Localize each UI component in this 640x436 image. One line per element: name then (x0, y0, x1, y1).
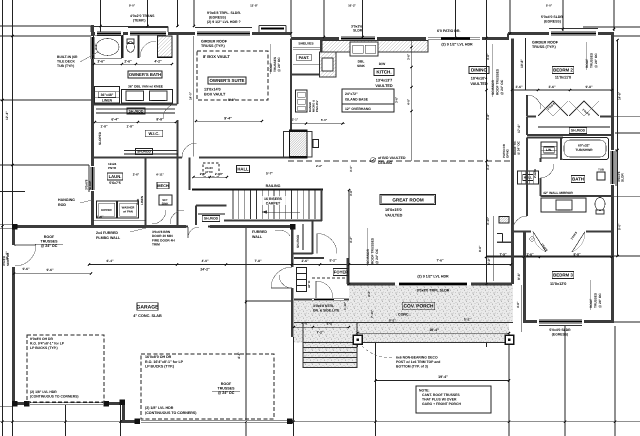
svg-text:CANT. ROOF TRUSSES: CANT. ROOF TRUSSES (422, 393, 460, 397)
svg-text:(EGRESS): (EGRESS) (544, 20, 561, 24)
door: suite from WIC (163, 104, 178, 118)
garage OH door 16'0 opening (140, 420, 288, 423)
svg-text:5'0x4'0 SLDR: 5'0x4'0 SLDR (541, 15, 563, 19)
svg-text:GIRDER ROOF: GIRDER ROOF (201, 40, 228, 44)
label: OWNERS SUITE (208, 77, 246, 84)
svg-text:10'-8": 10'-8" (520, 59, 524, 68)
svg-text:2'-6": 2'-6" (301, 259, 309, 263)
window: laundry west 3'0x6'8 slide (91, 166, 94, 191)
garage west wall (12, 227, 15, 404)
dimension line: left horizontal y=100 (0, 99, 91, 101)
wall: foyer east (346, 258, 348, 284)
svg-text:8'-0": 8'-0" (228, 98, 236, 102)
svg-text:2'-1": 2'-1" (292, 118, 299, 122)
svg-text:9'-0": 9'-0" (129, 4, 136, 8)
owner bath: toilet (127, 42, 135, 52)
svg-text:NOTE:: NOTE: (419, 389, 430, 393)
window: great room 9'0x8'0 trpl sldr (395, 282, 471, 285)
svg-text:PNTR: PNTR (108, 166, 117, 170)
svg-text:TRUSS (TYP.): TRUSS (TYP.) (201, 44, 225, 48)
svg-text:16'-2": 16'-2" (348, 4, 356, 8)
svg-text:4'-6": 4'-6" (516, 301, 520, 308)
svg-text:WALL: WALL (252, 235, 263, 239)
label: FOYER (333, 269, 349, 276)
svg-text:CONC.: CONC. (398, 313, 410, 317)
garage south jog wall (122, 402, 125, 423)
svg-text:(2) 1/8" LVL HDR: (2) 1/8" LVL HDR (145, 406, 174, 410)
WIC closet shelf and rod (96, 108, 175, 110)
svg-text:5'-7": 5'-7" (266, 172, 273, 176)
svg-text:THAT PLUS W/ OVER: THAT PLUS W/ OVER (422, 398, 457, 402)
svg-text:SH./ROD: SH./ROD (571, 129, 586, 133)
clerestory window bump 259-286 (259, 25, 286, 27)
svg-text:TUB: TUB (598, 168, 604, 172)
dim 18-4 between posts (358, 332, 510, 334)
svg-text:@ 24" OC: @ 24" OC (500, 79, 504, 95)
owner bath: shower mud set (158, 36, 173, 58)
dimension line: vertical x=525 bedroom2 (525, 38, 527, 90)
dimension line: right horizontal y=36 (612, 35, 640, 37)
wall: chase south (497, 241, 512, 243)
dimension line: horizontal y=90 bedroom2 (512, 89, 614, 91)
svg-text:SLDR: SLDR (621, 173, 625, 182)
svg-text:17'-6": 17'-6" (517, 124, 521, 133)
dimension line: right vertical x=615 bottom (614, 326, 616, 436)
svg-text:W.I.C.: W.I.C. (149, 131, 160, 136)
garage south wall left (12, 402, 125, 405)
foyer dashed ceiling (312, 277, 345, 279)
svg-text:BOX VAULT: BOX VAULT (204, 92, 226, 96)
svg-text:w/ PAN: w/ PAN (122, 210, 133, 214)
dimension line: vertical x=375 porch (375, 285, 377, 436)
wall: suite west (177, 35, 179, 104)
dimension line: vertical x=349 great room (348, 190, 350, 284)
svg-text:7'-9": 7'-9" (499, 253, 507, 257)
door: suite entry (182, 156, 199, 159)
dimension line: right vertical x=614 (613, 0, 615, 31)
pantry shelves (293, 47, 320, 49)
svg-text:2'-10": 2'-10" (215, 172, 224, 176)
svg-text:6x6 NON-BEARING DECO: 6x6 NON-BEARING DECO (396, 356, 438, 360)
dimension line: left vertical A (2, 0, 4, 436)
svg-text:3'-10": 3'-10" (486, 216, 490, 225)
exterior wall: bedroom3 west (523, 231, 526, 322)
svg-text:3'-8": 3'-8" (486, 113, 490, 120)
garage east door opening to mud hall (291, 267, 294, 288)
svg-text:SH./ROD: SH./ROD (296, 234, 300, 248)
svg-text:BEDRM 3: BEDRM 3 (553, 273, 573, 278)
svg-text:PLMBG WALL: PLMBG WALL (96, 236, 121, 240)
svg-text:BATH: BATH (572, 177, 584, 182)
svg-text:R.O. 16'4"x8'-1" for LP: R.O. 16'4"x8'-1" for LP (145, 360, 184, 364)
dimension line: left vertical B (12, 0, 14, 436)
hall south wall / bath north (527, 137, 563, 139)
svg-text:6'-4": 6'-4" (111, 118, 119, 122)
svg-text:5'-2": 5'-2" (329, 259, 337, 263)
bifold doors bedroom2 closet (538, 101, 553, 116)
svg-text:3'-4": 3'-4" (94, 43, 98, 50)
dimension line: vertical x=486 center (486, 0, 488, 347)
svg-text:12'-4": 12'-4" (5, 111, 9, 120)
svg-text:3'-6": 3'-6" (548, 85, 556, 89)
svg-text:PAN 45V: PAN 45V (315, 100, 319, 112)
dimension line: top vertical x=510 (509, 0, 511, 32)
window: owner suite 9'0 trpl sldr (195, 32, 252, 35)
svg-text:2'-0": 2'-0" (200, 172, 207, 176)
dimension line: top vertical x=324 (323, 0, 325, 37)
svg-text:DINING: DINING (471, 68, 488, 73)
kitchen counter north (322, 41, 428, 53)
dimension line: horizontal y=301 garage east (245, 300, 291, 302)
dimension line: vertical x=193 owner suite (193, 36, 195, 157)
label: PANT (297, 54, 311, 60)
dimension line: vertical x=357 post (357, 332, 359, 347)
window: bath east 3'0x3'6 sldr (611, 150, 614, 185)
svg-text:VAULTED: VAULTED (470, 82, 488, 86)
door: 6'0 patio door dining (426, 37, 482, 40)
garage south wall right (121, 420, 294, 423)
svg-text:DRYER: DRYER (101, 208, 112, 212)
svg-text:OWNER'S BATH: OWNER'S BATH (129, 72, 161, 77)
wall jog dining-bedroom2 (507, 34, 509, 41)
svg-text:3'-4": 3'-4" (486, 163, 490, 170)
owner bath: vanity counter (122, 90, 173, 104)
svg-text:4'0x2'0 TRANS: 4'0x2'0 TRANS (130, 14, 155, 18)
svg-text:9'-0": 9'-0" (618, 223, 622, 230)
svg-text:9'-6": 9'-6" (517, 272, 521, 280)
svg-text:@ 24" OC: @ 24" OC (218, 391, 235, 395)
svg-text:@ 24" OC: @ 24" OC (594, 53, 598, 68)
exterior wall: kitchen-dining north (291, 37, 508, 40)
svg-text:24"x72": 24"x72" (345, 92, 358, 96)
label: GREAT ROOM (380, 195, 436, 205)
dimension line: bottom vertical x=565 (564, 326, 566, 436)
wall: foyer north (294, 257, 324, 259)
label: BEDRM 3 (552, 272, 574, 279)
svg-text:GREAT ROOM: GREAT ROOM (392, 198, 423, 203)
note box cant roof trusses (416, 386, 491, 413)
svg-text:ISLAND BASE: ISLAND BASE (345, 98, 369, 102)
mud lockers column (297, 268, 307, 274)
svg-text:7'-6": 7'-6" (436, 259, 444, 263)
svg-text:4'-0": 4'-0" (201, 259, 209, 263)
owner bath: shower glass (158, 56, 173, 58)
porch slab edge line (294, 322, 513, 324)
exterior wall: great room south porch wall (347, 283, 512, 286)
svg-text:ROOF: ROOF (221, 382, 232, 386)
wall: suite east / pantry west (290, 39, 292, 158)
porch post west (353, 335, 362, 344)
deco post dashed leader (362, 346, 392, 358)
svg-text:GIRDER ROOF: GIRDER ROOF (532, 41, 559, 45)
svg-text:11'0x11'0: 11'0x11'0 (555, 76, 571, 80)
svg-text:PANT.: PANT. (299, 56, 310, 60)
porch step band stipple (294, 323, 509, 343)
window: owner bath west (91, 36, 94, 59)
foyer door arc (315, 281, 317, 298)
svg-text:GARG + FRONT PORCH: GARG + FRONT PORCH (422, 402, 461, 406)
door: closet east of stairs (316, 234, 318, 254)
svg-text:(EGRESS): (EGRESS) (552, 333, 568, 337)
svg-text:CARPET: CARPET (266, 201, 281, 205)
dimension line: bottom vertical x=120 (120, 402, 122, 436)
svg-text:FURRED: FURRED (252, 230, 267, 234)
door arc mud hall (279, 275, 292, 288)
label: shrod mud closet (202, 216, 219, 222)
dimension line: top vertical x=194 (193, 0, 195, 27)
svg-text:9'0x8'0 TRPL SLDR: 9'0x8'0 TRPL SLDR (417, 289, 450, 293)
svg-text:42" WALL MIRROR: 42" WALL MIRROR (543, 191, 573, 195)
dimension line: kitchen interior x=411 (411, 40, 413, 161)
svg-text:6'0 PATIO DR.: 6'0 PATIO DR. (437, 29, 461, 33)
svg-text:(CONTINUOUS TO CORNERS): (CONTINUOUS TO CORNERS) (145, 411, 197, 415)
svg-text:19'-4": 19'-4" (438, 375, 448, 379)
mech room walls (177, 158, 179, 227)
water heater chase box (499, 217, 509, 224)
svg-text:8'-8": 8'-8" (573, 253, 581, 257)
garage OH door 9'0 opening (29, 402, 104, 405)
svg-text:(2) 9 1/2" LVL HDR ?: (2) 9 1/2" LVL HDR ? (207, 20, 241, 24)
svg-text:13'0x14'0: 13'0x14'0 (204, 88, 221, 92)
label: BATH (571, 176, 585, 183)
svg-text:2x4 FURRED: 2x4 FURRED (96, 231, 118, 235)
svg-text:TRUSSES: TRUSSES (594, 293, 598, 308)
svg-text:3'-6": 3'-6" (407, 53, 411, 60)
dimension line: top vertical x=147 (147, 0, 149, 27)
svg-text:(TEMP.): (TEMP.) (133, 19, 146, 23)
linen cabinet 36x48 (95, 87, 120, 104)
kitchen island (342, 89, 394, 104)
svg-text:(CONTINUOUS TO CORNERS): (CONTINUOUS TO CORNERS) (30, 395, 79, 399)
svg-text:KITCH.: KITCH. (376, 70, 391, 75)
bath toilet (595, 198, 605, 211)
door knob circle bedroom3 (530, 237, 534, 241)
svg-text:14'-0": 14'-0" (189, 91, 193, 100)
owner bath: tub 6'0 tile deck (94, 36, 122, 59)
svg-text:7'-2": 7'-2" (316, 331, 324, 335)
svg-text:SINK: SINK (357, 64, 365, 68)
stair treads (232, 191, 234, 220)
window: bedroom3 south 5'0x4'0 (537, 320, 584, 323)
exterior wall: west wall owner block (91, 25, 94, 226)
dashed header box: 16'0 OH door (141, 354, 274, 419)
svg-text:9'0x8'0 OH DR: 9'0x8'0 OH DR (30, 337, 53, 341)
svg-text:POST w/ 1x6 TRIM TOP and: POST w/ 1x6 TRIM TOP and (396, 360, 440, 364)
svg-text:@ 24" OC: @ 24" OC (517, 140, 521, 155)
svg-text:LAUN.: LAUN. (109, 174, 122, 179)
svg-text:3'-0": 3'-0" (349, 165, 353, 172)
dimension line: right horizontal y=133 (615, 132, 640, 134)
fireplace TV marker (313, 140, 319, 148)
dimension line: left horizontal y=36 (0, 35, 92, 37)
dimension line: top vertical x=177 (177, 0, 179, 27)
svg-text:SH./ROD: SH./ROD (204, 217, 219, 221)
svg-text:ROOF: ROOF (44, 235, 55, 239)
svg-text:ROOF: ROOF (585, 59, 589, 68)
label: HALL center (236, 166, 249, 173)
garage service door opening west (12, 245, 15, 267)
svg-text:SLOPED: SLOPED (98, 131, 102, 145)
dashed vaulted ceiling line (288, 160, 512, 162)
svg-text:8'-6": 8'-6" (478, 245, 482, 252)
svg-text:(EGRESS): (EGRESS) (209, 16, 226, 20)
window: bedroom2 5'0x4'0 sldr egress (549, 32, 598, 35)
wall: closet west (526, 117, 528, 136)
svg-text:TRUSSES: TRUSSES (218, 387, 236, 391)
railing (192, 188, 323, 190)
dimension line: vertical x=246 garage (245, 228, 247, 436)
extra ticks top (99, 25, 101, 27)
svg-text:9'-8": 9'-8" (585, 85, 593, 89)
dimension line: vertical x=617 right (617, 40, 619, 256)
entry steps (302, 323, 304, 369)
linen shelves hall2 (518, 171, 539, 184)
exterior wall: right block west (511, 39, 514, 285)
svg-text:7'-10": 7'-10" (370, 309, 374, 318)
svg-text:7'-8": 7'-8" (254, 259, 262, 263)
dimension line: left horizontal y=191 (0, 191, 25, 193)
svg-text:2'-6": 2'-6" (133, 173, 140, 177)
dimension line: right horizontal y=256 (486, 255, 640, 257)
dashed box vault owner suite (197, 51, 268, 100)
svg-text:SHELVES: SHELVES (298, 42, 314, 46)
dimension line: top vertical x=563 (562, 0, 564, 31)
stairs bottom wall (224, 220, 322, 222)
svg-text:9'-6": 9'-6" (96, 215, 104, 219)
svg-text:HALL: HALL (237, 167, 249, 172)
svg-text:D/W: D/W (379, 62, 386, 66)
svg-text:4'-4": 4'-4" (237, 352, 241, 359)
svg-text:@ 24" OC: @ 24" OC (41, 244, 58, 248)
svg-text:TRUSSES: TRUSSES (41, 240, 59, 244)
svg-text:BEDRM 2: BEDRM 2 (553, 68, 573, 73)
stairs right wall (321, 190, 323, 222)
wall: foyer west (291, 302, 293, 337)
svg-text:2'-2": 2'-2" (316, 164, 323, 168)
dimension line: left horizontal y=26 (0, 25, 91, 27)
svg-text:LINEN: LINEN (140, 196, 144, 205)
svg-text:ROOF TRUSSES: ROOF TRUSSES (496, 68, 500, 95)
svg-text:COV. PORCH: COV. PORCH (404, 304, 434, 310)
garage fire door opening (186, 225, 210, 228)
porch post east (505, 335, 514, 344)
svg-text:VAULTED: VAULTED (375, 84, 393, 88)
dimension line: vertical x=293 foyer (293, 337, 295, 436)
bath vanity (541, 198, 586, 212)
owner bath: shower door arc (140, 41, 156, 57)
door: bath entry (540, 162, 543, 178)
WIC lower closet shelf and rod (124, 150, 178, 152)
label: centerline vaulted ceiling (370, 157, 375, 162)
svg-text:TRUSSES: TRUSSES (590, 53, 594, 68)
owner bath: sink left (126, 91, 144, 101)
oven micro tower (296, 90, 308, 112)
svg-text:ROOF TRUSSES: ROOF TRUSSES (371, 237, 375, 264)
door: bedroom3 from hall (526, 216, 529, 231)
svg-text:16'0x15'0: 16'0x15'0 (385, 208, 402, 212)
svg-text:BOTTOM (TYP. of 3): BOTTOM (TYP. of 3) (396, 365, 428, 369)
svg-text:ROD: ROD (58, 203, 66, 207)
svg-text:SH./ROD: SH./ROD (137, 150, 151, 154)
svg-text:12" OVERHANG: 12" OVERHANG (345, 107, 371, 111)
garage east wall (291, 227, 294, 303)
svg-text:3'0x6'8 NTRL: 3'0x6'8 NTRL (313, 304, 334, 308)
svg-text:@ 24" OC: @ 24" OC (277, 57, 281, 72)
svg-text:4'-0": 4'-0" (301, 322, 309, 326)
svg-text:4'-2": 4'-2" (367, 290, 371, 297)
svg-text:1'-8": 1'-8" (126, 125, 134, 129)
svg-text:(2) 9 1/2" LVL HDR: (2) 9 1/2" LVL HDR (417, 275, 449, 279)
svg-text:BUILT-IN (6R: BUILT-IN (6R (57, 55, 78, 59)
svg-text:1'-10": 1'-10" (343, 301, 347, 310)
dimension line: horizontal y=264 garage (89, 264, 511, 266)
entry steps stipple (303, 343, 357, 369)
svg-text:5'-0": 5'-0" (546, 4, 553, 8)
kitchen west counter (320, 52, 337, 77)
svg-text:4'-11": 4'-11" (156, 173, 165, 177)
svg-text:LP BUCKS (TYP.): LP BUCKS (TYP.) (30, 346, 58, 350)
svg-text:OWNER'S SUITE: OWNER'S SUITE (210, 78, 245, 83)
svg-text:HANGING: HANGING (58, 198, 75, 202)
entry stoop stipple (294, 301, 349, 323)
svg-text:5'-2": 5'-2" (326, 322, 334, 326)
svg-text:SCISSOR: SCISSOR (491, 80, 495, 95)
svg-text:LP BUCKS (TYP.): LP BUCKS (TYP.) (145, 365, 175, 369)
dimension line: right horizontal y=27 (583, 26, 640, 28)
door arcs laundry hall (152, 210, 166, 224)
svg-text:ROOF: ROOF (589, 299, 593, 308)
svg-text:4'-0": 4'-0" (407, 98, 411, 105)
wall: hall east / bedroom2 west (526, 95, 528, 116)
svg-text:OPNG: OPNG (506, 148, 510, 158)
svg-text:SLIDE: SLIDE (88, 181, 92, 190)
svg-text:6'-4": 6'-4" (106, 259, 114, 263)
svg-text:4" CONC. SLAB: 4" CONC. SLAB (133, 314, 162, 318)
bath tub (561, 138, 609, 160)
svg-text:9'0x6'8 TRPL. SLDR.: 9'0x6'8 TRPL. SLDR. (207, 11, 241, 15)
svg-text:CEILING: CEILING (378, 161, 392, 165)
dimension line: right horizontal y=116 (612, 116, 640, 118)
dimension line: bottom vertical x=65 (65, 402, 67, 436)
dimension line: bottom long horizontal y=422 (0, 421, 640, 423)
pantry east wall (320, 39, 322, 76)
svg-text:24'-2": 24'-2" (200, 268, 210, 272)
bedroom3 double door opening (531, 230, 586, 233)
wall: hall east lower (526, 138, 528, 233)
svg-text:16'0x8'0 OH DR: 16'0x8'0 OH DR (145, 355, 172, 359)
svg-text:TUB/SHWR: TUB/SHWR (575, 148, 593, 152)
svg-text:FOYER: FOYER (334, 270, 348, 275)
owner bath: sink right (150, 91, 168, 101)
bath accessories box (597, 172, 605, 180)
porch step outer edge line (303, 342, 509, 344)
closet shelf rod (538, 126, 610, 128)
bedroom2 closet south wall (527, 134, 612, 136)
svg-text:TUB (TYP.): TUB (TYP.) (57, 64, 74, 68)
bedroom2 closet north wall (527, 116, 612, 118)
svg-text:3'-6": 3'-6" (97, 60, 105, 64)
covered porch concrete stipple (349, 285, 513, 323)
label: OWNERS BATH (128, 71, 162, 78)
window: above tub 96-122 (95, 32, 123, 35)
label: 16 risers (258, 196, 288, 205)
plumbing wall jog (497, 233, 503, 235)
dimension line: garage sw ext (0, 406, 12, 408)
linen shelves hall (541, 142, 557, 158)
svg-text:5'-2": 5'-2" (389, 318, 396, 322)
svg-text:31'-0": 31'-0" (5, 251, 9, 260)
label: BEDRM 2 (552, 67, 574, 74)
